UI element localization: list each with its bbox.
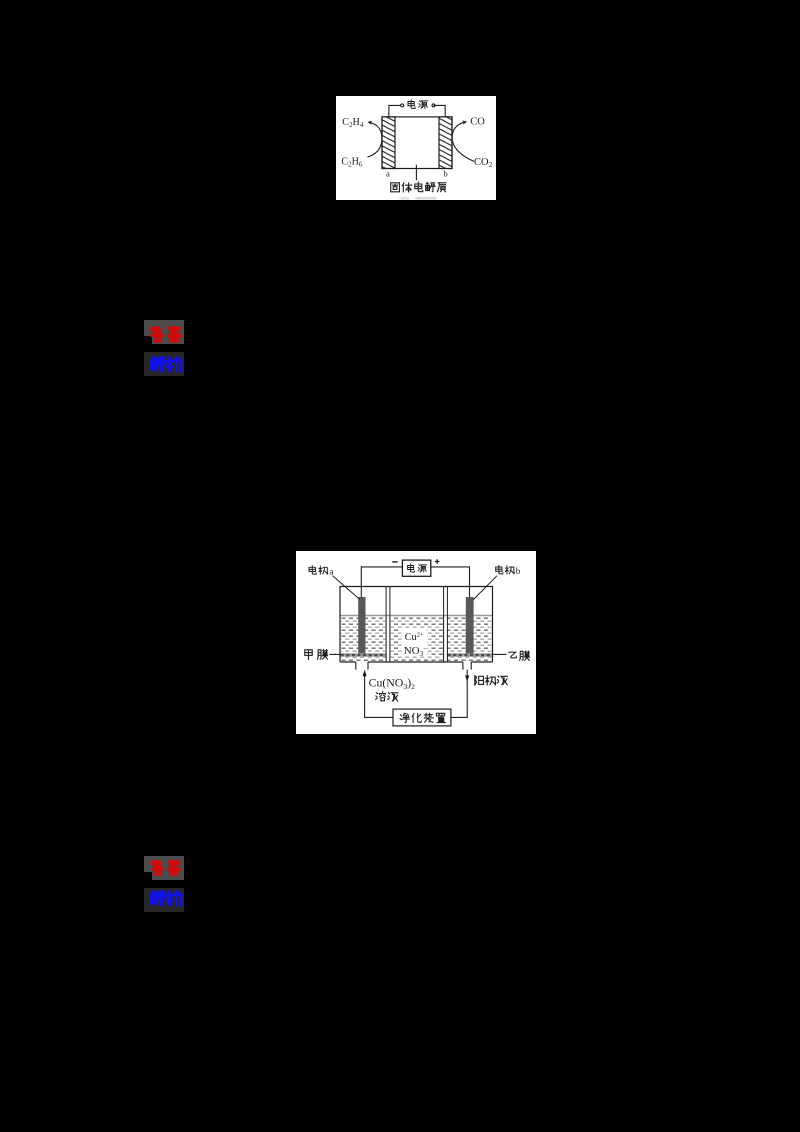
curved arrow C2H6 -> electrode a -> C2H4 [367, 122, 382, 157]
faint smudge artifacts [399, 196, 409, 199]
minus terminal [392, 561, 397, 563]
label 电极a [309, 566, 328, 575]
partition gap whiteout [387, 615, 390, 661]
label 阳极液 [475, 676, 508, 686]
svg-text:a: a [330, 566, 334, 576]
red tag block 1 (答案) [144, 320, 184, 336]
electrolysis cell body [382, 116, 452, 168]
plus terminal [435, 559, 440, 564]
label 甲膜 + leader [305, 650, 328, 660]
diagram 1 white panel [336, 96, 497, 200]
halo behind ion labels [402, 629, 428, 656]
pointer to electrode b [473, 576, 497, 600]
membrane band right (乙膜) [448, 653, 492, 656]
membrane partition 2 (double line) [444, 587, 448, 663]
curved arrow CO2 -> electrode b -> CO [452, 121, 474, 161]
power supply box 电源 [402, 560, 430, 576]
liquid surface line [340, 615, 493, 617]
wire left power lead [388, 105, 400, 117]
membrane partition 1 (double line) [386, 587, 390, 663]
svg-text:b: b [443, 168, 447, 178]
outlet pipe right [463, 662, 471, 670]
flow line right with down arrow [451, 670, 467, 718]
red tag block 2 (答案) [144, 856, 184, 872]
electrode a bar [358, 597, 365, 653]
svg-text:b: b [516, 566, 521, 576]
label 电源 [408, 99, 428, 108]
electrode b bar [466, 597, 474, 653]
diagram 2 white panel [296, 551, 536, 734]
purification box 净化装置 [393, 709, 451, 726]
glyph defs [0, 0, 1, 1]
svg-text:a: a [386, 168, 390, 178]
svg-text:C2H6: C2H6 [341, 156, 363, 168]
terminal circle left [400, 103, 403, 106]
wire right power lead [433, 105, 445, 117]
electrode a (hatched) [382, 116, 395, 168]
label 电极b [496, 565, 515, 574]
blue tag block 1 (解析) [144, 352, 184, 376]
svg-text:C2H4: C2H4 [342, 117, 364, 129]
label 乙膜 + leader [509, 651, 530, 660]
svg-text:Cu(NO3)2: Cu(NO3)2 [369, 675, 416, 691]
blue tag block 2 (解析) [144, 888, 184, 912]
svg-text:CO: CO [470, 116, 485, 127]
svg-text:CO2: CO2 [474, 157, 493, 169]
wire to electrode a [361, 567, 402, 597]
pointer to electrode a [333, 576, 360, 600]
liquid fill pattern [341, 616, 492, 661]
wire to electrode b [431, 567, 470, 597]
label 溶液 [376, 692, 398, 702]
pointer line to electrolyte [415, 164, 417, 179]
flow line left with up arrow [365, 672, 393, 717]
label 固体电解质 [390, 181, 445, 191]
membrane band left (甲膜) [341, 653, 386, 656]
outlet pipe left [356, 662, 368, 670]
tank walls [340, 587, 493, 663]
terminal circle right [432, 103, 435, 106]
electrode b (hatched) [439, 116, 452, 168]
